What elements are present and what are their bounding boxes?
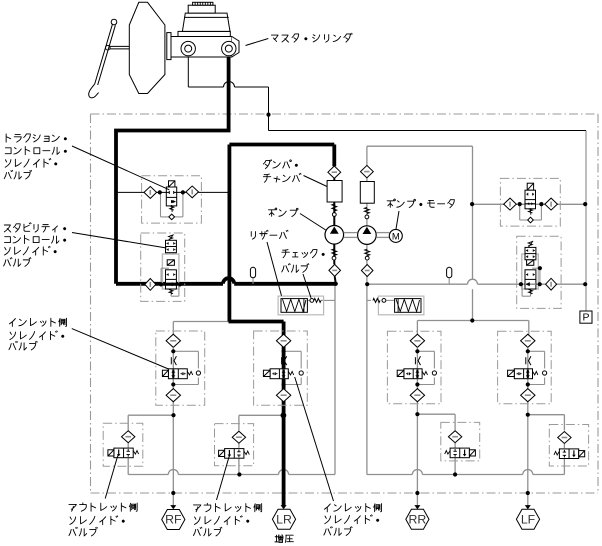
label: damper chamber 2 [263,173,301,182]
damper chamber check diamond (right) [361,165,374,177]
wire: LR outlet valve tap [239,415,284,474]
attenuator capsule (right) [447,267,452,284]
label: traction control 3 [5,158,57,167]
inlet solenoid valve LF [508,334,547,402]
svg-text:RF: RF [165,513,182,527]
label: outlet B2 [194,516,248,525]
stability valve (right) solenoid [527,260,534,266]
check valve (left) [310,298,321,302]
label: traction control 4 [4,170,31,179]
RF outlet valve box [103,423,143,466]
label: check valve 1 [282,250,324,258]
leader: inlet valve label (left) [72,329,169,369]
leader: traction valve label [72,146,169,190]
inlet solenoid valve LR [263,334,303,402]
wire: left traction valve line [116,191,229,193]
label: outlet B1 [193,503,261,511]
reservoir (right) [378,296,424,315]
pump drive shaft [344,233,390,238]
wire: right traction valve line [473,203,587,205]
traction valve (left) body [166,187,176,206]
pump inlet spring+ball (right top) [365,208,370,219]
check valve (right) [373,298,386,302]
traction valve (right) solenoid [527,183,533,190]
hydraulic unit dash-dot boundary [91,114,599,493]
stability control solenoid valve box (left) [141,233,185,301]
brake pedal [89,19,117,98]
wire: MC left port line to unit [188,55,586,130]
leader: inlet valve label (mid) [295,377,334,501]
stability valve (left) bottom bypass [171,284,179,296]
label: traction control 2 [5,146,66,154]
label: stability control 2 [5,235,66,243]
RR inlet valve box [387,331,441,404]
stability valve (right) pilot tap [532,268,540,284]
wire: left reservoir check-valve branch [307,299,335,301]
svg-text:RR: RR [409,512,427,526]
label: stability control 4 [4,258,31,267]
RR outlet valve box [441,422,480,461]
leader: outlet valve label (left) [105,456,118,499]
wire: left reservoir return vertical [334,284,336,475]
inlet solenoid valve RR [397,334,436,402]
booster-cylinder flange [167,33,171,60]
LR inlet valve box [254,331,308,405]
svg-text:M: M [392,232,400,243]
damper chamber check diamond (left) [328,166,341,178]
leader: master cylinder [246,39,269,46]
label: master cylinder [271,33,352,42]
label: outlet A2 [70,516,124,525]
pump P2 (right) [358,226,377,245]
wire: master-left line on right side down to P [585,131,587,312]
label: inlet M2 [325,515,379,524]
traction control solenoid valve box (right) [500,178,560,226]
stability valve (right) bottom bypass [522,284,530,296]
stability valve (left) lower body [166,270,177,289]
stability valve (right) bottom spring [529,289,533,295]
label: inlet L1 [9,318,66,326]
stability valve (right) upper body [525,247,536,259]
traction valve (left) filter diamonds [144,186,199,198]
wire: RF wheel line [172,402,174,506]
label: inlet M1 [324,504,381,512]
wire: RF inlet supply branch [173,322,228,335]
wire: right reservoir return vertical [366,284,368,474]
wire: right lower supply rail to RR and LF inlets [417,321,528,335]
wire: LF outlet valve tap [528,415,565,475]
thick path: MC right port down-left-down to stability line [116,54,336,284]
damper chamber (left) [327,181,342,203]
arrow to RF [170,505,176,509]
outlet solenoid valve LR [219,431,250,458]
node LF wheel [516,509,539,529]
stability valve (left) pilot tap [161,268,169,284]
node RR wheel [406,509,429,529]
LF inlet valve box [498,331,552,404]
stability valve (left) solenoid [167,260,174,266]
label: outlet A1 [69,503,137,511]
MC secondary port [222,41,236,55]
wire: RR outlet valve tap [417,414,455,474]
svg-text:LR: LR [276,512,292,526]
vacuum booster [129,2,165,93]
svg-text:P: P [582,312,589,324]
node LR wheel [272,509,295,529]
label: inlet M3 [324,527,352,536]
leader: reservoir label [267,242,282,296]
label: stability control 3 [5,246,57,255]
label: pressure-increase [275,535,293,543]
pedal push rod [110,46,130,49]
label: outlet B3 [193,527,221,536]
pump inlet spring+ball (left top) [332,204,337,216]
outlet solenoid valve RF [108,431,139,458]
stability valve (left) filter diamond [145,279,156,291]
stability valve (right) filter diamond [546,278,557,290]
node RF wheel [162,510,185,530]
traction valve (right) filter diamonds [504,198,558,210]
inlet solenoid valve RF [162,334,200,402]
stability valve (left) top spring [169,234,174,240]
port P box [580,311,592,324]
wire: right return rail [367,470,565,475]
traction valve (left) solenoid [169,181,175,187]
label: inlet L3 [9,341,37,350]
leader: check valve label [303,274,311,298]
wire: right stability valve line with hop [367,279,586,284]
leader: damper chamber label [304,176,328,187]
master cylinder body [171,37,239,58]
wire: RF outlet valve tap [128,415,173,474]
traction control solenoid valve box (left) [142,176,202,223]
wire: right pump discharge to right traction valve [367,146,473,284]
pump P1 (left) [325,226,344,245]
leader: pump motor label [396,211,399,229]
reservoir tank [178,13,230,36]
traction valve (right) body [525,190,536,209]
pump suction spring+ball+check (left bottom) [329,249,341,276]
reservoir filler cap [188,2,215,13]
wire: left return rail [128,470,335,475]
label: pump [269,208,299,217]
label: reservoir [251,230,288,239]
label: stability control 1 [4,223,65,232]
traction valve (right) return spring [528,208,532,215]
LF outlet valve box [549,425,588,467]
stability valve (right) top spring [528,241,533,247]
wire: LF wheel line [527,401,529,506]
label: check valve 2 [282,264,309,273]
arrow to RR [414,505,420,509]
leader: pump label [300,214,327,231]
damper chamber (right) [360,182,374,204]
stability valve (right) gray frame [522,254,539,290]
stability valve (left) bottom spring [169,289,173,295]
label: traction control 1 [6,134,66,142]
traction valve (right) bypass loop with check valve [520,204,542,223]
LR outlet valve box [215,424,254,466]
wire: right supply descent to lower supply rail [472,204,474,320]
stability valve (left) gray frame [162,254,179,290]
arrow to LF [525,505,531,509]
stability valve (left) upper body [166,240,177,252]
label: outlet A3 [69,527,97,536]
attenuator capsule (left) [250,267,255,284]
wire: right reservoir check-valve branch [367,299,395,301]
RF inlet valve box [156,331,205,405]
label: damper chamber 1 [263,160,297,169]
label: inlet L2 [10,331,64,340]
pump motor M [389,229,402,242]
leader: stability valve label [72,233,167,249]
traction valve (left) return spring [170,205,174,212]
thick path: pump discharge to LR inlet [229,145,335,506]
MC primary port [181,41,195,55]
outlet solenoid valve RR [445,431,476,458]
wire: RR wheel line [416,401,418,506]
arrow to LR [281,505,287,509]
pump suction spring+ball+check (right bottom) [361,249,373,276]
outlet solenoid valve LF [554,432,585,459]
svg-text:LF: LF [521,512,536,526]
label: pump motor [387,199,454,208]
leader: outlet valve label (mid) [217,456,230,501]
stability control solenoid valve box (right) [517,236,561,308]
stability valve (right) lower body [525,270,536,289]
thick path: left pump column [334,145,336,284]
reservoir (left) [278,296,324,315]
traction valve (left) bypass loop with check valve [161,192,183,219]
